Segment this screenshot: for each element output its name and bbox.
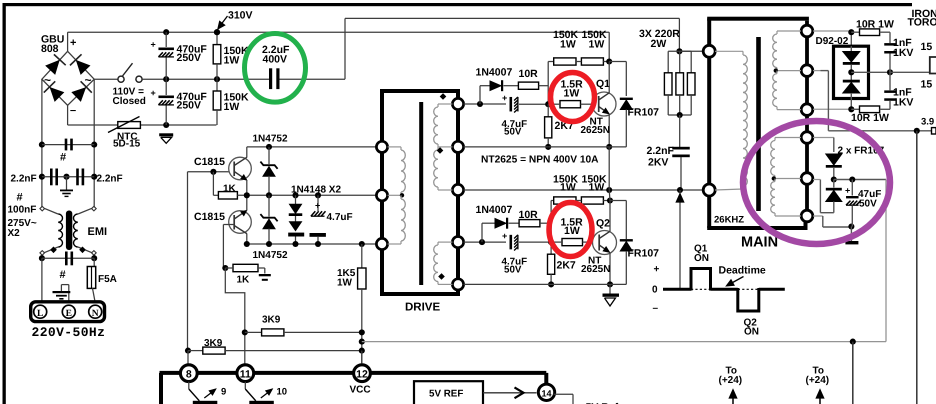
svg-text:15: 15 bbox=[921, 79, 933, 91]
svg-text:4.7uF: 4.7uF bbox=[327, 212, 353, 223]
svg-text:C1815: C1815 bbox=[194, 211, 225, 223]
svg-text:1W: 1W bbox=[560, 182, 576, 194]
svg-text:1W: 1W bbox=[224, 55, 240, 67]
svg-text:C1815: C1815 bbox=[194, 156, 225, 168]
svg-text:100nF: 100nF bbox=[8, 205, 37, 216]
svg-text:2.2nF: 2.2nF bbox=[97, 174, 123, 185]
svg-text:1K: 1K bbox=[237, 275, 251, 286]
svg-text:1W: 1W bbox=[564, 88, 580, 100]
svg-text:+: + bbox=[70, 37, 76, 49]
svg-text:NT2625 = NPN 400V 10A: NT2625 = NPN 400V 10A bbox=[481, 155, 599, 166]
svg-text:9: 9 bbox=[221, 387, 226, 398]
svg-text:ON: ON bbox=[694, 253, 709, 264]
svg-text:1W: 1W bbox=[589, 182, 605, 194]
svg-text:26KHZ: 26KHZ bbox=[714, 215, 744, 226]
svg-text:50V: 50V bbox=[504, 264, 522, 275]
svg-text:1N4752: 1N4752 bbox=[253, 134, 288, 145]
svg-text:8: 8 bbox=[186, 368, 192, 380]
svg-text:F5A: F5A bbox=[98, 274, 117, 285]
svg-text:~: ~ bbox=[44, 73, 51, 87]
svg-text:2K7: 2K7 bbox=[557, 260, 576, 272]
svg-text:(+24): (+24) bbox=[806, 375, 830, 386]
svg-text:–: – bbox=[70, 105, 76, 117]
svg-text:10R 1W: 10R 1W bbox=[851, 112, 889, 124]
svg-text:250V: 250V bbox=[177, 100, 202, 112]
svg-text:1KV: 1KV bbox=[893, 97, 913, 109]
svg-text:2625N: 2625N bbox=[581, 264, 610, 275]
svg-text:2.2nF: 2.2nF bbox=[647, 145, 675, 157]
svg-text:FR107: FR107 bbox=[628, 248, 660, 260]
svg-text:310V: 310V bbox=[228, 10, 253, 22]
svg-text:10R: 10R bbox=[519, 209, 539, 221]
svg-text:Q2: Q2 bbox=[596, 218, 610, 230]
svg-text:#: # bbox=[60, 152, 66, 164]
svg-text:250V: 250V bbox=[177, 52, 202, 64]
svg-text:X2: X2 bbox=[8, 228, 21, 239]
svg-text:1N4007: 1N4007 bbox=[476, 67, 513, 79]
svg-text:Closed: Closed bbox=[113, 96, 146, 107]
svg-text:~: ~ bbox=[85, 73, 92, 87]
svg-text:0: 0 bbox=[652, 285, 658, 296]
svg-text:+: + bbox=[151, 88, 156, 98]
svg-text:EMI: EMI bbox=[88, 226, 108, 238]
svg-text:+: + bbox=[315, 201, 320, 211]
svg-text:12: 12 bbox=[356, 368, 368, 380]
svg-text:14: 14 bbox=[541, 388, 551, 398]
svg-text:#: # bbox=[60, 269, 66, 281]
svg-text:Q1: Q1 bbox=[596, 78, 610, 90]
svg-text:3.9: 3.9 bbox=[921, 117, 934, 128]
svg-text:Deadtime: Deadtime bbox=[719, 265, 766, 277]
svg-text:1W: 1W bbox=[564, 225, 580, 237]
svg-text:1W: 1W bbox=[224, 101, 240, 113]
svg-text:1W: 1W bbox=[589, 39, 605, 51]
svg-text:2KV: 2KV bbox=[648, 157, 668, 169]
svg-text:2W: 2W bbox=[651, 38, 667, 50]
svg-text:50V: 50V bbox=[859, 199, 877, 210]
svg-text:FR107: FR107 bbox=[628, 106, 660, 118]
svg-text:5D-15: 5D-15 bbox=[113, 139, 141, 150]
svg-text:–: – bbox=[653, 303, 659, 314]
svg-text:15: 15 bbox=[921, 41, 933, 53]
svg-text:+: + bbox=[502, 231, 507, 241]
svg-text:TOROID: TOROID bbox=[908, 17, 936, 29]
svg-text:DRIVE: DRIVE bbox=[405, 302, 440, 314]
svg-text:50V: 50V bbox=[504, 127, 522, 138]
svg-text:11: 11 bbox=[240, 368, 251, 380]
svg-text:1N4007: 1N4007 bbox=[476, 204, 513, 216]
svg-text:+: + bbox=[845, 186, 850, 196]
svg-text:+: + bbox=[151, 40, 156, 50]
svg-text:10: 10 bbox=[277, 387, 288, 398]
svg-text:3K9: 3K9 bbox=[204, 338, 223, 349]
svg-text:2625N: 2625N bbox=[581, 125, 610, 136]
svg-text:1W: 1W bbox=[337, 278, 353, 289]
svg-text:N: N bbox=[92, 309, 99, 319]
svg-text:1N4752: 1N4752 bbox=[253, 250, 288, 261]
svg-text:E: E bbox=[66, 309, 72, 319]
svg-text:1K: 1K bbox=[223, 184, 237, 195]
svg-text:10R: 10R bbox=[519, 68, 539, 80]
svg-text:1KV: 1KV bbox=[893, 47, 913, 59]
svg-text:400V: 400V bbox=[263, 54, 288, 66]
svg-text:808: 808 bbox=[41, 43, 59, 55]
svg-text:#: # bbox=[17, 192, 23, 204]
svg-text:1W: 1W bbox=[560, 39, 576, 51]
svg-text:220V-50Hz: 220V-50Hz bbox=[32, 325, 106, 340]
svg-text:+: + bbox=[654, 264, 660, 275]
svg-text:(+24): (+24) bbox=[719, 375, 743, 386]
svg-text:2.2nF: 2.2nF bbox=[11, 174, 37, 185]
svg-text:L: L bbox=[37, 309, 43, 319]
svg-text:5V REF: 5V REF bbox=[429, 388, 463, 399]
svg-text:MAIN: MAIN bbox=[741, 235, 778, 251]
svg-text:+: + bbox=[502, 93, 507, 103]
svg-text:VCC: VCC bbox=[350, 385, 371, 396]
svg-text:3K9: 3K9 bbox=[262, 315, 281, 326]
svg-text:ON: ON bbox=[744, 327, 759, 338]
